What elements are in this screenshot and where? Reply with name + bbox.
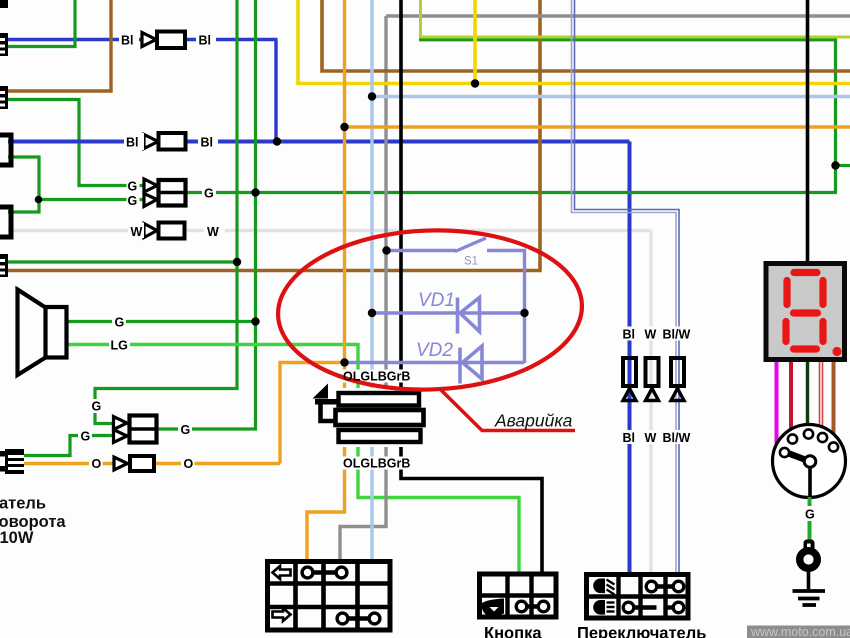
arrow block left turn xyxy=(268,562,391,631)
node yellow xyxy=(471,79,479,87)
node green x237 xyxy=(233,258,241,266)
wire thin red pair display-switch xyxy=(820,362,823,430)
node VD1 right xyxy=(520,309,528,317)
node green speaker xyxy=(251,317,259,325)
relay arrow actuator xyxy=(313,384,340,422)
wire gray horizontal y=16 xyxy=(386,14,850,18)
svg-text:W: W xyxy=(131,225,143,239)
label O right xyxy=(181,456,195,471)
label W right xyxy=(204,223,225,240)
node S1 gray xyxy=(382,246,390,254)
node light-blue top xyxy=(368,92,376,100)
ignition switch SW round xyxy=(773,425,846,498)
label Bl/W plug bottom xyxy=(661,430,691,445)
lamp HL4 W xyxy=(144,223,185,239)
connector X5 left (G/W) xyxy=(0,207,11,237)
wire LG light green from speaker xyxy=(67,345,519,575)
arrow icon right xyxy=(273,608,291,621)
ellipse highlight red xyxy=(275,225,584,395)
label LG speaker xyxy=(109,337,130,353)
svg-text:10W: 10W xyxy=(0,529,34,547)
svg-text:Аварийка: Аварийка xyxy=(494,411,573,431)
diode VD1 xyxy=(373,298,525,334)
node VD2 left xyxy=(340,358,348,366)
wire W horizontal (left connector to right turn) xyxy=(8,229,651,232)
wire W vertical x=651 xyxy=(649,231,652,575)
headlight icon row1 xyxy=(593,579,614,595)
wire Bl blue vertical x=629.5 down to switch block xyxy=(628,142,632,575)
lamp HL1 Bl row1 xyxy=(142,32,185,49)
wire green to top edge x=75 xyxy=(8,0,75,47)
svg-text:Bl/W: Bl/W xyxy=(663,431,691,445)
wire green connector3 down x=79 to G bulb xyxy=(8,100,143,186)
wire green vertical x=255.5 from top xyxy=(158,0,256,429)
seven-segment display xyxy=(766,264,845,360)
svg-text:S1: S1 xyxy=(464,256,478,268)
lamp HL3 G/G double xyxy=(144,179,186,207)
label Bl row1 left xyxy=(119,31,139,48)
switch S1 xyxy=(388,238,525,363)
label G speaker xyxy=(112,314,126,330)
label G above lower bulb xyxy=(89,399,103,414)
svg-text:O: O xyxy=(92,457,102,471)
label G bulb upper in1 xyxy=(127,180,140,194)
svg-text:G: G xyxy=(115,316,125,330)
label Bl row1 right xyxy=(196,31,216,48)
plug P3 Bl/W column xyxy=(671,358,684,401)
contact row1 arrow block xyxy=(302,567,347,578)
label OLGLBGrB lower xyxy=(341,457,410,471)
svg-text:OLGLBGrB: OLGLBGrB xyxy=(343,370,410,384)
lamp HL5 G/G double lower xyxy=(114,416,157,443)
contact row1 selector xyxy=(646,581,684,592)
wire lavender pair line B xyxy=(575,0,680,574)
wire green connector6 y=262 xyxy=(6,260,237,263)
label Bl row2 right xyxy=(198,133,218,150)
contact in button block xyxy=(516,601,549,612)
cropped text указатель поворота xyxy=(0,495,66,548)
svg-text:Bl: Bl xyxy=(126,136,139,150)
wire lime from top y=37 xyxy=(421,0,850,37)
svg-text:Bl: Bl xyxy=(623,431,636,445)
svg-text:LG: LG xyxy=(111,339,128,353)
wire green ignition to plug xyxy=(808,497,812,546)
svg-text:Переключатель: Переключатель xyxy=(577,625,706,638)
wire yellow horizontal y=83.5 xyxy=(298,0,850,84)
label W plug top xyxy=(642,327,659,342)
ground symbol xyxy=(793,591,826,605)
wire crimson display-switch xyxy=(789,362,793,429)
wire orange O bulb row y=463.5 xyxy=(22,462,280,465)
connector X7 turn-signal plug xyxy=(0,449,24,474)
svg-text:Bl: Bl xyxy=(199,34,212,48)
wire light blue vertical x=372 xyxy=(370,0,373,563)
connector X4 left (Bl/G) xyxy=(0,135,11,165)
contact row2 selector xyxy=(623,602,684,613)
wire gray vertical x=386 xyxy=(340,16,386,563)
plug P2 W column xyxy=(646,358,659,401)
wire orange vertical x=344.5 with jog to block xyxy=(307,0,345,563)
svg-text:G: G xyxy=(128,180,138,194)
wire brown long y=270.5 xyxy=(0,0,540,271)
connector X1 top-left edge xyxy=(0,0,8,8)
svg-text:VD2: VD2 xyxy=(416,340,453,361)
svg-text:G: G xyxy=(181,423,191,437)
node green right xyxy=(831,161,839,169)
lamp HL6 O xyxy=(114,456,154,471)
wire orange corner up x=280 to VD2 node xyxy=(280,363,345,464)
wire brown horizontal y=71 xyxy=(322,0,850,71)
block SW2 button (Кнопка) xyxy=(480,574,557,617)
label Bl plug top xyxy=(620,327,637,342)
svg-text:G: G xyxy=(92,400,102,414)
label W plug bottom xyxy=(642,430,659,445)
svg-text:G: G xyxy=(805,508,815,522)
node VD1 left xyxy=(368,309,376,317)
svg-text:www.moto.com.ua: www.moto.com.ua xyxy=(750,625,850,638)
wire black vertical x=401 relay to button block xyxy=(401,0,542,574)
wire lavender pair line A xyxy=(572,0,677,574)
svg-text:W: W xyxy=(645,328,657,342)
wire Bl blue row2 horizontal y=141.5 long xyxy=(8,140,630,144)
label G bulb upper in2 xyxy=(127,194,140,208)
spark plug symbol xyxy=(800,540,818,591)
plug P1 Bl column xyxy=(623,358,636,401)
svg-text:VD1: VD1 xyxy=(418,290,455,311)
connector X3 left (Br/G) xyxy=(0,86,8,109)
label G ignition ground xyxy=(803,506,817,522)
wire G green output long y=192.5 xyxy=(186,191,837,194)
svg-text:OLGLBGrB: OLGLBGrB xyxy=(343,457,410,471)
label O left xyxy=(89,456,103,471)
callout pointer Аварийка xyxy=(440,389,575,431)
speaker BA1 horn xyxy=(18,290,67,376)
wire green stub to right edge y=165.5 xyxy=(836,164,850,167)
wire dark-green display-switch xyxy=(806,362,809,424)
wire Bl blue row1 horizontal y=39.5 xyxy=(8,38,278,41)
connector X2 left (Bl/G) xyxy=(0,33,8,56)
node green left xyxy=(35,196,43,204)
wire blue corner vertical x=276 xyxy=(274,40,277,142)
wire green vertical x=237 from top xyxy=(95,0,237,424)
node orange top xyxy=(340,123,348,131)
arrow icon left xyxy=(273,566,291,579)
svg-text:Кнопка: Кнопка xyxy=(484,625,542,638)
svg-text:Bl/W: Bl/W xyxy=(663,328,691,342)
svg-text:атель: атель xyxy=(0,495,46,513)
label W left xyxy=(128,223,144,240)
wire green connector4 to node at x=39 xyxy=(8,157,39,212)
wire green lower bulb input xyxy=(8,436,129,456)
label G lower-bulb out xyxy=(178,422,192,437)
svg-text:Bl: Bl xyxy=(121,34,134,48)
contact row3 arrow block xyxy=(337,613,380,624)
svg-text:G: G xyxy=(81,430,91,444)
svg-text:W: W xyxy=(645,431,657,445)
svg-text:W: W xyxy=(207,225,219,239)
wire light blue horizontal y=96.5 xyxy=(372,95,850,98)
block SW3 selector (Переключатель) xyxy=(587,575,689,619)
relay K1 flasher xyxy=(331,388,430,447)
watermark bar xyxy=(747,625,850,638)
label Bl row2 left xyxy=(124,133,144,150)
label Bl plug bottom xyxy=(620,430,637,445)
horn icon in button block xyxy=(482,599,505,616)
label Bl/W plug top xyxy=(661,327,691,342)
diode VD2 xyxy=(346,346,525,384)
wire yellow vertical x=475 xyxy=(473,0,477,84)
node green G-out xyxy=(251,188,259,196)
wire brown display-switch xyxy=(832,362,836,444)
wire brown to top edge x=111 xyxy=(8,0,111,91)
headlight icon row2 xyxy=(593,600,614,615)
wire magenta display-switch xyxy=(775,362,779,444)
wire green right corner up x=835.5 xyxy=(419,40,836,193)
node blue Bl xyxy=(273,137,281,145)
svg-text:Bl: Bl xyxy=(201,136,214,150)
lamp HL2 Bl row2 xyxy=(144,133,186,150)
wire green node to G bulb lower input y=199.5 xyxy=(39,198,143,201)
label OLGLBGrB upper xyxy=(343,370,410,384)
label G lower-bulb in xyxy=(78,429,92,444)
wire orange horizontal y=127 xyxy=(345,125,850,129)
svg-text:G: G xyxy=(128,194,138,208)
connector X6 left (G/Br) xyxy=(0,254,8,277)
wire green speaker G y=321.5 xyxy=(67,320,256,323)
svg-text:O: O xyxy=(184,457,194,471)
label OLGLBGrB upper halo xyxy=(341,370,406,383)
svg-text:Bl: Bl xyxy=(623,328,636,342)
wire black vertical x=807.5 to display xyxy=(806,0,810,262)
svg-text:G: G xyxy=(204,187,214,201)
label G bulb upper out xyxy=(202,185,216,201)
